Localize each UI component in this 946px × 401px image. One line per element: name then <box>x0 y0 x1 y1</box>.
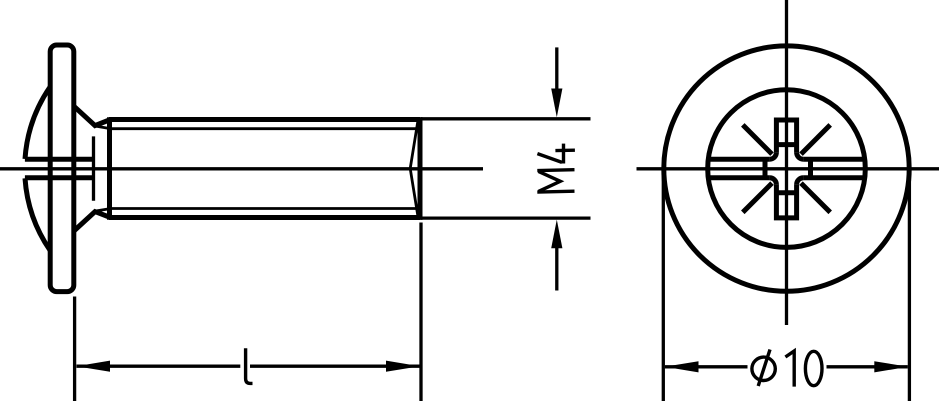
pozidriv wing step lines horizontal slot <box>763 159 768 178</box>
front view horizontal center line <box>637 167 940 170</box>
M4 dimension line lower + arrow <box>555 248 558 291</box>
front view vertical center line <box>785 0 788 325</box>
recess slot lower edge (side view) <box>25 175 94 180</box>
text dia symbol <box>752 357 775 380</box>
dia10 extension line right <box>908 172 911 401</box>
shank end face line <box>418 117 423 220</box>
thread runout boundary line <box>107 117 112 220</box>
cone under head upper <box>74 106 111 125</box>
text l (length) <box>246 348 253 383</box>
end chamfer lines <box>410 122 418 216</box>
flange washer (head) side view <box>50 45 74 292</box>
pozidriv wing step lines vertical slot <box>776 142 796 147</box>
dia10 extension line left <box>662 172 665 401</box>
pozidriv horizontal slot lines left <box>707 157 770 162</box>
M4 dimension line upper + arrow <box>555 47 558 89</box>
recess slot upper edge (side view) <box>25 157 94 162</box>
l dimension extension line left (under head) <box>73 297 76 401</box>
pozidriv horizontal slot lines right <box>803 157 866 162</box>
thread root line bottom <box>111 207 417 210</box>
side view center line (screw axis) <box>0 167 483 170</box>
thread major line top <box>109 117 420 122</box>
pozidriv vertical slot lower outline with cap <box>776 185 796 218</box>
dome arc lower <box>25 178 50 250</box>
text 0 <box>805 351 822 385</box>
M4 extension line bottom <box>421 216 591 219</box>
pozidriv diagonal identification marks <box>743 125 772 154</box>
text 1 <box>785 351 794 387</box>
cone under head lower <box>74 212 111 231</box>
M4 extension line top <box>421 117 591 120</box>
pozidriv vertical slot upper outline with cap <box>776 120 796 152</box>
l dimension extension line right (screw tip) <box>419 223 422 401</box>
outer circle (flange dia 10) <box>664 46 909 291</box>
l dimension line + arrows <box>77 365 241 368</box>
text M4: digit 4 <box>555 148 575 152</box>
thread major line bottom <box>109 215 420 220</box>
inner circle (dome) <box>708 90 866 248</box>
dia10 dimension line + arrows <box>665 365 748 368</box>
dome arc upper <box>25 87 50 159</box>
text M4 (rotated, stroke glyphs): letter M <box>537 144 575 193</box>
pozidriv center corner fillets <box>770 152 777 159</box>
thread root line top <box>111 127 417 130</box>
recess depth line <box>92 136 95 200</box>
thread root chamfer top <box>97 126 112 128</box>
thread root chamfer bottom <box>97 209 112 211</box>
